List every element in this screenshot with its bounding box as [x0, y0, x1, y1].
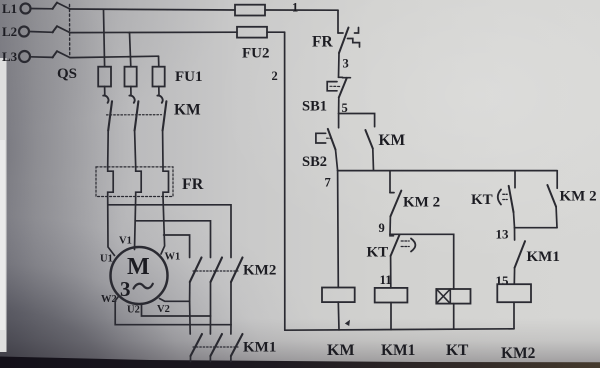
svg-text:KM2: KM2 [501, 345, 536, 362]
svg-text:FR: FR [312, 34, 333, 51]
fuse FU2 pole 2 (wire 2) [237, 27, 285, 38]
terminal L2 [19, 27, 53, 37]
svg-text:KM: KM [379, 132, 406, 149]
coil KT (with X) [436, 289, 470, 329]
svg-text:KT: KT [471, 192, 493, 208]
svg-text:KM 2: KM 2 [403, 195, 440, 211]
motor M 3~ [111, 247, 168, 304]
KM2 bank linkage dashed [193, 270, 238, 272]
svg-text:KM1: KM1 [243, 340, 276, 356]
svg-text:FU1: FU1 [175, 69, 203, 85]
svg-text:KT: KT [446, 342, 469, 359]
wire 1 drop to FR contact [337, 10, 339, 33]
svg-text:9: 9 [379, 221, 385, 235]
pushbutton SB1 (NC) [327, 77, 350, 113]
coil KM2 [497, 284, 531, 302]
contactor KM1 bank contact 1 [191, 334, 203, 362]
svg-text:7: 7 [325, 176, 331, 190]
svg-text:11: 11 [380, 272, 392, 287]
switch QS pole 2 [53, 26, 238, 32]
contactor KM main contact A [103, 87, 112, 168]
contact KM1 NC (branch 4) [514, 228, 525, 285]
white page edge sliver left [0, 58, 7, 352]
svg-text:2: 2 [272, 69, 278, 83]
contactor KM2 bank contact 2 [210, 258, 222, 335]
FR heater element B [136, 167, 142, 197]
contactor KM1 bank contact 3 [231, 334, 243, 362]
svg-text:U1: U1 [100, 254, 113, 265]
wire junction 13 [515, 227, 558, 229]
svg-text:SB1: SB1 [302, 99, 327, 115]
wire tap C to KM2 bank [164, 235, 190, 258]
svg-text:FU2: FU2 [242, 46, 270, 62]
bottom rail [285, 329, 514, 330]
wire FR to motor V1 [135, 197, 136, 250]
svg-text:KM1: KM1 [527, 249, 560, 265]
svg-text:L1: L1 [2, 1, 17, 16]
svg-text:V2: V2 [157, 304, 170, 315]
FR NC contact (control) [338, 28, 360, 54]
arrow mark node 4 [345, 320, 350, 326]
wire phase A drop [104, 10, 105, 67]
coil KM1 [375, 288, 408, 303]
svg-text:KM: KM [174, 102, 201, 119]
wire phase C drop [158, 56, 160, 66]
contact KM2 self-hold [547, 171, 557, 228]
svg-text:SB2: SB2 [302, 154, 327, 170]
contact KM2 NC (branch 2) [390, 171, 401, 235]
contactor KM2 bank contact 3 [231, 258, 243, 335]
fuse FU1 pole A [98, 67, 111, 87]
svg-text:KM2: KM2 [243, 263, 276, 279]
coil KM [322, 288, 355, 303]
wire motor U2 lead [142, 304, 211, 316]
svg-text:V1: V1 [119, 236, 132, 247]
wire motor V2 lead [160, 299, 190, 302]
svg-text:L3: L3 [2, 49, 18, 64]
wire junction 9 to KT coil branch [390, 234, 454, 289]
wire FR to motor U1 [108, 197, 115, 256]
switch QS pole 3 [53, 51, 159, 57]
terminal L1 [21, 4, 54, 14]
KM linkage dashed [107, 114, 162, 116]
pushbutton SB2 (NO) [316, 114, 339, 171]
contact KM aux (NO) [365, 130, 373, 171]
fuse FU1 pole B [125, 67, 137, 87]
svg-text:3: 3 [120, 277, 131, 301]
svg-text:W1: W1 [165, 252, 181, 263]
wire node 3 [338, 53, 341, 77]
terminal L3 [19, 51, 53, 62]
svg-text:1: 1 [292, 1, 298, 15]
wire 2 vertical [284, 32, 286, 330]
svg-text:KM 2: KM 2 [560, 189, 597, 205]
QS linkage dashed [69, 5, 71, 56]
contactor KM main contact C [157, 87, 166, 168]
wire phase B drop [130, 32, 131, 66]
fuse FU2 pole 1 (wire 1) [235, 5, 338, 16]
contactor KM main contact B [129, 87, 138, 168]
wire tap A to KM2 bank [108, 205, 231, 258]
fuse FU1 pole C [153, 67, 165, 87]
wire junction 5 branch [339, 114, 375, 127]
contactor KM1 bank contact 2 [210, 334, 222, 362]
svg-text:QS: QS [57, 66, 77, 82]
svg-text:3: 3 [343, 57, 349, 71]
wire rail node 7 [338, 170, 558, 172]
dark bottom photo edge [0, 357, 600, 368]
contact KT NO delayed (branch 4) [498, 171, 515, 228]
svg-text:L2: L2 [2, 24, 17, 39]
svg-text:KT: KT [367, 245, 389, 261]
FR heater element A [108, 167, 114, 197]
svg-text:KM: KM [327, 342, 355, 359]
thermal relay FR heater box [96, 167, 173, 197]
switch QS pole 1 [53, 3, 236, 10]
svg-text:KM1: KM1 [381, 342, 415, 359]
contactor KM2 bank contact 1 [190, 258, 202, 335]
svg-text:FR: FR [182, 176, 204, 193]
contact KT NC delayed [390, 234, 415, 288]
svg-text:U2: U2 [127, 305, 140, 316]
FR heater element C [163, 167, 169, 197]
svg-text:13: 13 [496, 227, 510, 242]
wire FR to motor W1 [161, 197, 165, 254]
wire main drop to KM coil [337, 171, 340, 288]
KM1 bank linkage dashed [193, 346, 238, 348]
wire tap B to KM2 bank [135, 221, 210, 258]
wire motor W2 lead [115, 297, 231, 325]
